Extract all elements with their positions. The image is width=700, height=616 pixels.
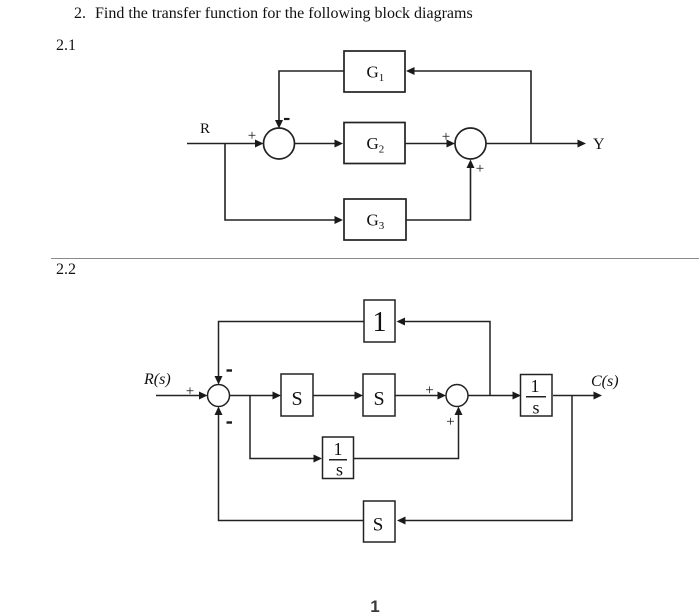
block 1 (top feedback gain) — [364, 300, 395, 342]
svg-text:Y: Y — [593, 136, 605, 153]
title text — [74, 5, 86, 23]
block S2 — [363, 374, 395, 416]
arrow to C(s) — [594, 392, 603, 400]
svg-text:+: + — [248, 128, 256, 144]
block bottom S — [364, 501, 396, 542]
wire right 1/s output to C(s) — [553, 395, 597, 397]
arrow into sumB — [438, 392, 447, 400]
svg-text:S: S — [373, 515, 384, 536]
arrow into sum1 — [255, 140, 264, 148]
page number 1 — [367, 597, 383, 616]
arrow into G1 right edge — [406, 67, 415, 75]
arrow into S1 — [273, 392, 282, 400]
arrow up into sumA bottom — [215, 407, 223, 416]
wire G1 feedback left + down into sum1 — [279, 71, 344, 125]
svg-text:R: R — [200, 121, 210, 137]
summing junction sum1 — [264, 128, 295, 159]
arrow up into sum2 bottom — [467, 160, 475, 169]
arrow into sumA — [199, 392, 208, 400]
svg-text:+: + — [186, 384, 194, 400]
svg-text:+: + — [446, 414, 454, 430]
wire bottom S output left and up into sumA bottom — [219, 411, 364, 521]
wire mid 1/s output up into sumB bottom — [353, 411, 459, 459]
wire sum1 to G2 — [295, 143, 339, 145]
block G2 — [344, 123, 405, 164]
arrow up into sumB bottom — [455, 407, 463, 416]
block G1 — [344, 51, 405, 92]
wire R branch down to G3 — [225, 144, 338, 221]
section label 2.2 — [56, 261, 76, 279]
wire block1 output left and down into sumA top — [219, 322, 365, 382]
wire output branch down to bottom S — [402, 396, 572, 521]
arrow down into sum1 top — [275, 120, 283, 129]
svg-text:1: 1 — [531, 376, 540, 396]
wire branch up to block1 input — [401, 322, 490, 396]
wire branch down to mid 1/s — [250, 396, 317, 459]
arrow into bottom S right edge — [397, 517, 406, 525]
svg-text:+: + — [425, 383, 433, 399]
arrow to Y — [578, 140, 587, 148]
arrow into sum2 — [447, 140, 456, 148]
section label 2.1 — [56, 37, 76, 55]
block right 1/s — [521, 375, 553, 418]
svg-text:+: + — [442, 129, 450, 145]
wire sumB output to right 1/s — [468, 395, 516, 397]
arrow into S2 — [355, 392, 364, 400]
wire sumA output to S1 — [230, 395, 277, 397]
svg-text:s: s — [532, 398, 539, 418]
svg-text:C(s): C(s) — [591, 373, 619, 390]
arrow into mid 1/s — [314, 455, 323, 463]
wire S2 to sumB — [395, 395, 441, 397]
arrow into block1 right edge — [397, 318, 406, 326]
summing junction sum2 — [455, 128, 486, 159]
block mid 1/s — [323, 437, 354, 480]
block G3 — [344, 199, 406, 240]
summing junction sumB — [446, 385, 468, 407]
block S1 — [281, 374, 313, 416]
arrow into G3 — [335, 216, 344, 224]
svg-text:s: s — [336, 460, 343, 480]
svg-text:S: S — [373, 388, 384, 410]
svg-text:1: 1 — [334, 439, 343, 459]
wire junction2 output up to G1 input — [411, 71, 531, 144]
svg-text:R(s): R(s) — [143, 371, 171, 388]
arrow down into sumA top — [215, 376, 223, 385]
wire R(s) input — [156, 395, 203, 397]
wire G2 to sum2 — [405, 143, 449, 145]
svg-text:S: S — [291, 388, 302, 410]
wire sum2 output to Y — [486, 143, 581, 145]
sign minus at sum1 top — [284, 118, 290, 120]
svg-text:1: 1 — [373, 307, 387, 338]
svg-text:+: + — [476, 161, 484, 177]
summing junction sumA — [208, 385, 230, 407]
wire S1 to S2 — [313, 395, 358, 397]
sign minus at sumA bottom — [227, 421, 233, 423]
section divider — [51, 258, 699, 259]
wire R input — [187, 143, 257, 145]
sign minus at sumA top — [227, 369, 233, 371]
wire G3 output up into sum2 — [406, 163, 471, 220]
arrow into right 1/s — [513, 392, 522, 400]
arrow into G2 — [335, 140, 344, 148]
